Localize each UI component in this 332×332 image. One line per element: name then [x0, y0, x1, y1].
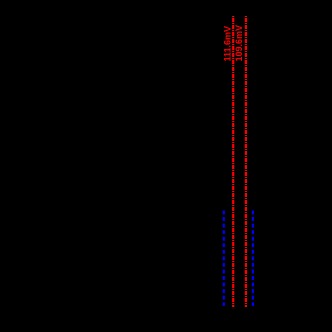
- svg-text:109.6mV: 109.6mV: [234, 25, 244, 62]
- svg-text:111.6mV: 111.6mV: [223, 26, 233, 62]
